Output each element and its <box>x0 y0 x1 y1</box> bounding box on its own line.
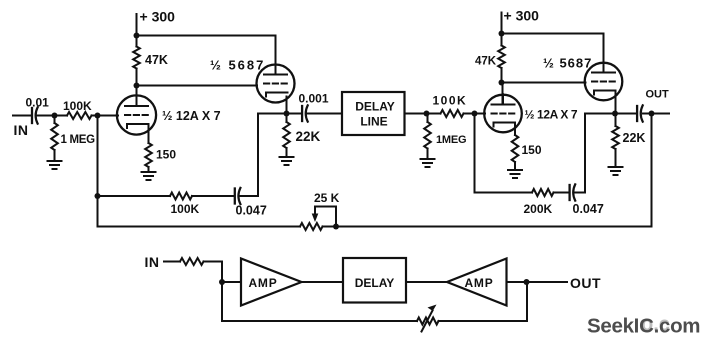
wire feedback right <box>475 192 533 194</box>
wire node C to V3 grid <box>475 113 486 115</box>
svg-text:150: 150 <box>522 143 542 157</box>
label C3 0.047 <box>236 204 267 218</box>
node feedback tap left <box>95 193 101 199</box>
node V1 plate junction <box>134 83 140 89</box>
wire node B down <box>97 116 99 227</box>
label V1 half 12AX7 <box>162 109 221 123</box>
label R2 100K <box>63 99 92 113</box>
wire V4 cathode to C5 <box>615 113 637 115</box>
power +300 left stem <box>136 14 138 36</box>
svg-text:OUT: OUT <box>570 275 601 291</box>
node delay out junction <box>424 111 430 117</box>
svg-text:47K: 47K <box>475 56 497 68</box>
node block in junction <box>219 279 225 285</box>
node B junction (V1 grid) <box>95 113 101 119</box>
pot wiper arrow <box>312 207 319 222</box>
resistor R3 47K <box>133 36 140 86</box>
resistor R5 1MEG right <box>424 114 431 160</box>
wire block in <box>164 261 180 263</box>
label R7 47K <box>475 56 497 68</box>
ground below R4 <box>280 157 294 165</box>
label R8 22K <box>623 131 646 145</box>
node A junction <box>52 113 58 119</box>
resistor R8 22K right <box>612 114 619 168</box>
svg-text:SeekIC.com: SeekIC.com <box>587 315 700 338</box>
svg-text:OUT: OUT <box>646 89 670 101</box>
svg-text:0.047: 0.047 <box>236 204 267 218</box>
label OUT top <box>646 89 670 101</box>
label C1 value 0.01 <box>26 96 50 110</box>
svg-text:LINE: LINE <box>360 115 387 129</box>
wire AMP2 to OUT <box>507 281 568 283</box>
wire AMP1 to DELAY <box>302 281 344 283</box>
delay block box <box>343 258 406 303</box>
label R1 1 MEG <box>61 134 96 146</box>
node block out junction <box>524 279 530 285</box>
variable resistor arrow <box>422 305 437 332</box>
capacitor C3 0.047 <box>235 188 241 204</box>
wire block in 2 <box>204 262 223 283</box>
svg-text:½ 12A X 7: ½ 12A X 7 <box>162 109 221 123</box>
svg-text:IN: IN <box>145 254 160 270</box>
label C2 0.001 <box>299 92 329 106</box>
svg-text:+ 300: + 300 <box>504 8 540 24</box>
wire node B to V1 grid <box>98 115 119 117</box>
wire +300 rail to V4 plate <box>502 34 604 73</box>
node +300 junction right <box>499 31 505 37</box>
potentiometer R10 25K element <box>300 223 323 230</box>
resistor R12 150 <box>145 124 152 172</box>
node V4 cathode junction <box>612 111 618 117</box>
label R11 200K <box>524 202 553 216</box>
svg-text:25 K: 25 K <box>314 191 340 205</box>
svg-text:22K: 22K <box>296 129 321 144</box>
wire C3 up to V2 cathode <box>240 114 287 197</box>
label V2 half 5687 <box>210 58 265 73</box>
label IN <box>14 122 29 138</box>
label R3 47K <box>145 53 168 67</box>
wire C4 up to V4 cathode <box>575 114 615 193</box>
capacitor C4 0.047 right <box>570 184 576 200</box>
wire block feedback <box>222 282 417 321</box>
svg-text:200K: 200K <box>524 202 553 216</box>
svg-text:½ 12A X 7: ½ 12A X 7 <box>525 108 578 122</box>
wire R9 to C3 <box>192 195 235 197</box>
triode V1 half 12AX7 <box>117 95 156 135</box>
wire V2 cathode lead <box>286 97 288 114</box>
triode V2 half 5687 <box>257 64 295 103</box>
label R12 150 <box>156 148 176 162</box>
label R10 25 K <box>314 191 340 205</box>
label R13 150 <box>522 143 542 157</box>
triode V3 half 12AX7 right <box>484 94 522 132</box>
wire V1 plate lead <box>136 86 138 107</box>
svg-text:DELAY: DELAY <box>355 276 395 290</box>
resistor R6 100K right <box>427 110 475 117</box>
pot wiper bracket <box>315 207 336 227</box>
delay line box <box>342 92 405 135</box>
resistor R4 22K <box>283 114 290 158</box>
ground below R5 <box>421 159 435 167</box>
svg-text:150: 150 <box>156 148 176 162</box>
amplifier AMP1 triangle <box>241 259 302 306</box>
wire V3 plate node to V4 grid <box>502 82 586 84</box>
svg-text:100K: 100K <box>433 94 468 108</box>
wire +300 rail to V2 plate <box>137 36 276 75</box>
wire V3 plate lead <box>502 83 504 105</box>
label R6 100K <box>433 94 468 108</box>
wire R11 to C4 <box>554 192 570 194</box>
wire DELAY to AMP2 <box>406 281 447 283</box>
watermark SeekIC.com <box>587 315 700 338</box>
svg-text:100K: 100K <box>63 99 92 113</box>
node OUT junction <box>649 111 655 117</box>
ground below R1 <box>48 161 62 169</box>
svg-text:0.01: 0.01 <box>26 96 50 110</box>
svg-text:IN: IN <box>14 122 29 138</box>
wire input <box>13 115 32 117</box>
label V3 half 12AX7 <box>525 108 578 122</box>
svg-text:1 MEG: 1 MEG <box>61 134 96 146</box>
svg-text:½ 5687: ½ 5687 <box>210 58 265 73</box>
wire bottom rail left <box>98 226 301 228</box>
power +300 right stem <box>501 13 503 34</box>
wire to AMP1 <box>222 281 241 283</box>
label DELAY block <box>355 276 395 290</box>
wire node C down <box>474 114 476 193</box>
ground below R13 <box>508 170 522 178</box>
svg-text:AMP: AMP <box>464 276 493 290</box>
label IN block <box>145 254 160 270</box>
label R9 100K <box>171 202 200 216</box>
resistor block input <box>180 258 204 265</box>
label C4 0.047 <box>573 202 604 216</box>
resistor R2 100K <box>55 112 98 119</box>
node +300 junction left <box>134 33 140 39</box>
wire C2 to delay line <box>308 113 343 115</box>
label R5 1MEG <box>436 134 466 146</box>
ground below R8 <box>609 167 623 175</box>
label V4 half 5687 <box>543 56 592 71</box>
svg-text:47K: 47K <box>145 53 168 67</box>
wire V4 cathode lead <box>615 91 617 114</box>
resistor R9 100K feedback <box>170 193 192 200</box>
svg-text:0.047: 0.047 <box>573 202 604 216</box>
wire delay line out <box>405 113 427 115</box>
wire bottom rail right <box>323 114 652 227</box>
svg-text:DELAY: DELAY <box>355 100 395 114</box>
label DELAY LINE <box>355 100 395 129</box>
label +300 left <box>140 9 176 25</box>
node V3 plate junction <box>499 80 505 86</box>
node pot tap junction <box>333 224 339 230</box>
node V2 cathode junction <box>284 111 290 117</box>
svg-text:½ 5687: ½ 5687 <box>543 56 592 71</box>
wire feedback left <box>98 195 171 197</box>
capacitor C5 output <box>637 105 651 121</box>
svg-text:0.001: 0.001 <box>299 92 329 106</box>
label +300 right <box>504 8 540 24</box>
variable resistor block <box>417 318 439 325</box>
node C junction (V3 grid) <box>472 111 478 117</box>
wire V1 plate node to V2 grid <box>137 85 258 87</box>
label AMP2 <box>464 276 493 290</box>
watermark SeekIC.com ghost <box>641 314 670 336</box>
triode V4 half 5687 right <box>585 62 623 100</box>
resistor R13 150 right <box>512 123 519 171</box>
resistor R1 1 MEG <box>51 116 58 162</box>
label R4 22K <box>296 129 321 144</box>
ground below R12 <box>142 172 156 180</box>
wire C1 to node A <box>37 115 55 117</box>
svg-text:+ 300: + 300 <box>140 9 176 25</box>
resistor R7 47K right <box>498 34 505 83</box>
amplifier AMP2 triangle <box>447 259 507 306</box>
svg-text:22K: 22K <box>623 131 646 145</box>
capacitor C1 0.01 <box>32 107 38 123</box>
capacitor C2 0.001 <box>302 105 308 121</box>
svg-text:1MEG: 1MEG <box>436 134 466 146</box>
wire OUT <box>652 113 670 115</box>
label AMP1 <box>248 276 277 290</box>
svg-text:AMP: AMP <box>248 276 277 290</box>
wire block feedback right <box>439 282 528 321</box>
label OUT block <box>570 275 601 291</box>
resistor R11 200K feedback <box>532 189 554 196</box>
svg-text:100K: 100K <box>171 202 200 216</box>
wire V2 cathode to C2 <box>287 113 303 115</box>
